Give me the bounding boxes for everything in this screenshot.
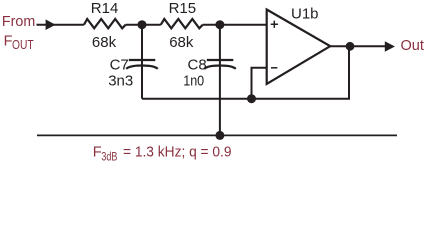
junction inverting input <box>247 94 256 103</box>
svg-text:From: From <box>2 14 35 30</box>
svg-text:R14: R14 <box>91 0 119 17</box>
op-amp plus sign <box>271 21 278 28</box>
svg-text:68k: 68k <box>169 34 194 51</box>
wire feedback bottom <box>142 46 349 98</box>
wire input <box>37 24 85 26</box>
svg-text:U1b: U1b <box>291 5 319 22</box>
capacitor C7 lead <box>141 25 143 99</box>
wire inverting input <box>252 68 267 99</box>
resistor R14 <box>84 19 126 28</box>
capacitor C8 lead <box>219 25 221 136</box>
capacitor C7 curved plate <box>126 66 158 69</box>
svg-text:OUT: OUT <box>12 38 34 52</box>
svg-text:C8: C8 <box>188 56 207 73</box>
ground rail <box>37 134 397 136</box>
svg-text:3n3: 3n3 <box>108 73 133 90</box>
wire node B to op-amp + input <box>203 24 267 26</box>
capacitor C8 flat plate <box>207 59 234 61</box>
svg-text:R15: R15 <box>169 0 197 17</box>
svg-text:= 1.3 kHz; q = 0.9: = 1.3 kHz; q = 0.9 <box>123 145 232 161</box>
output arrowhead <box>385 41 395 51</box>
op-amp minus sign <box>271 67 277 69</box>
svg-text:68k: 68k <box>92 34 117 51</box>
capacitor C8 curved plate <box>204 66 236 69</box>
input arrowhead <box>46 19 56 30</box>
junction node B <box>215 20 224 29</box>
svg-text:Out: Out <box>401 38 424 54</box>
svg-text:C7: C7 <box>110 57 129 74</box>
resistor R15 <box>161 19 203 28</box>
wire R14 to node A <box>126 24 161 26</box>
capacitor C7 flat plate <box>129 59 156 61</box>
op-amp U1b <box>267 10 331 85</box>
junction node A <box>138 20 147 29</box>
svg-text:3dB: 3dB <box>101 152 117 164</box>
svg-text:1n0: 1n0 <box>183 73 204 90</box>
junction output node <box>346 42 355 51</box>
junction ground <box>215 131 224 140</box>
wire output <box>330 45 386 47</box>
